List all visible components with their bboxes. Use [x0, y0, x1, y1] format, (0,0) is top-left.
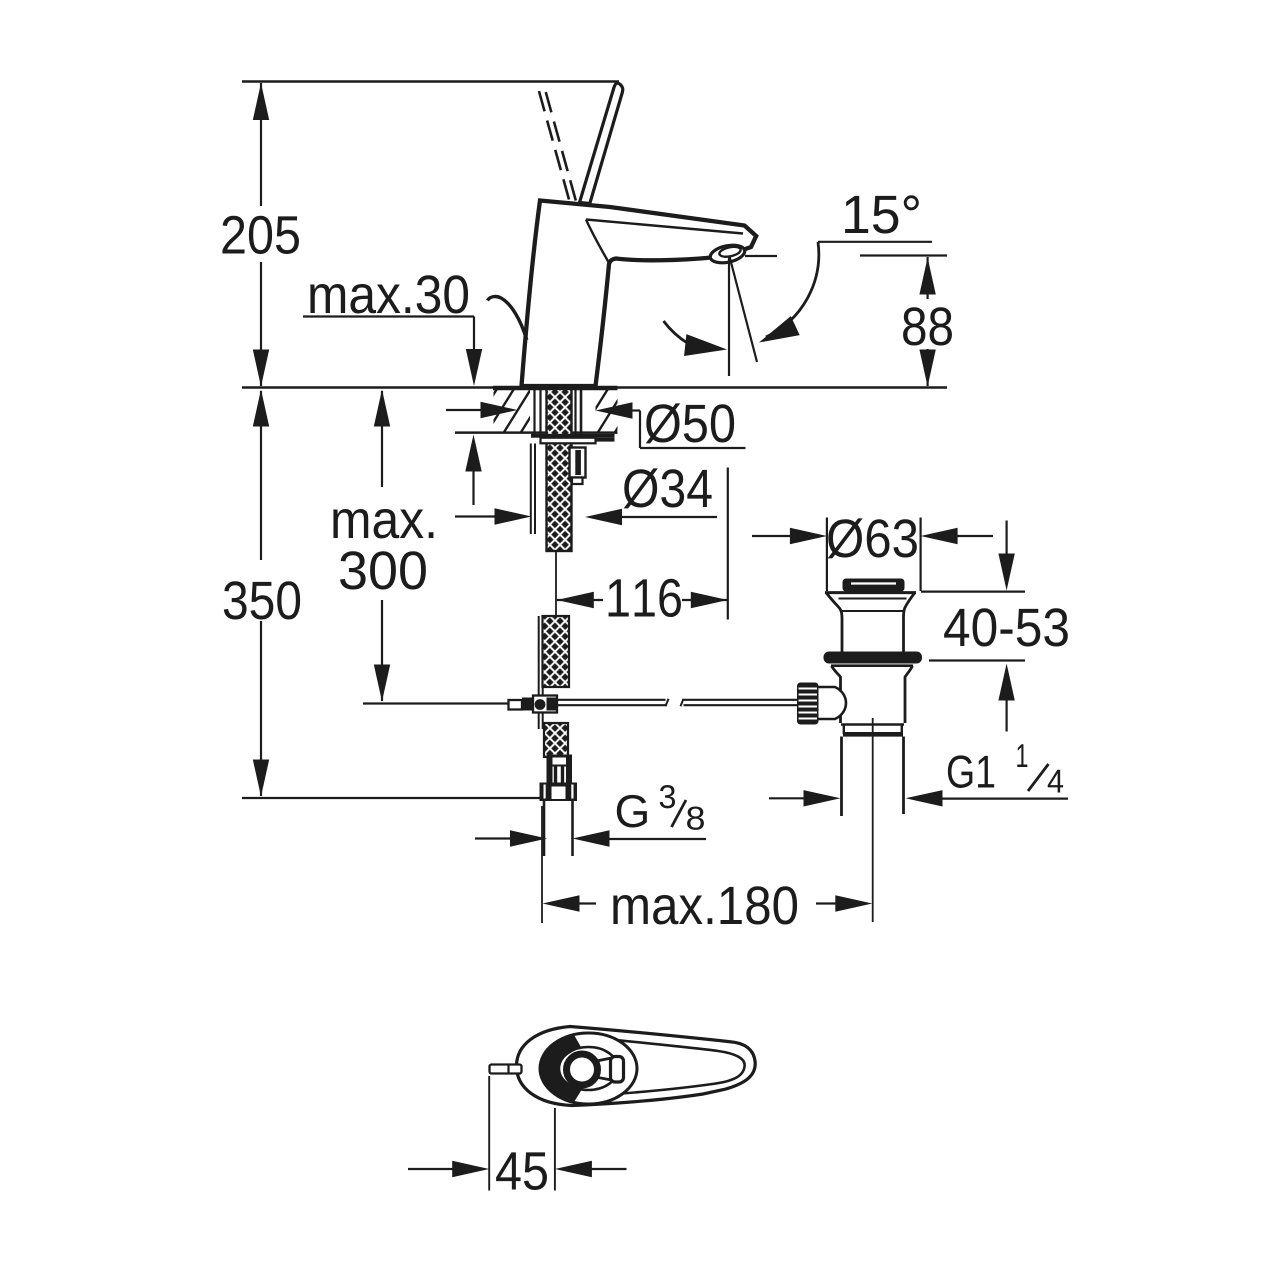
faucet front crease line	[586, 220, 609, 264]
dim 4053 arrow up	[998, 664, 1014, 701]
faucet centerline below shank	[555, 552, 557, 620]
horizontal pull rod left segment	[557, 699, 666, 701]
dim O34 left line	[455, 515, 497, 517]
dim 116 arrow right	[691, 592, 728, 608]
dim max300 line upper	[381, 391, 383, 487]
aerator outer ellipse	[709, 242, 747, 265]
waste centerline	[872, 718, 874, 922]
dim O50 left line	[446, 409, 482, 411]
fraction slash G114	[1028, 764, 1049, 791]
counter bottom line	[455, 431, 618, 434]
dim 350 line upper	[260, 391, 262, 560]
label G of G38	[617, 795, 647, 828]
waste O-ring seal	[824, 652, 923, 664]
dim O34 arrow right	[495, 508, 532, 524]
label 300	[340, 551, 426, 589]
dim 45 right line	[591, 1168, 627, 1170]
hose connection pipe	[543, 800, 546, 856]
label O34	[624, 468, 712, 508]
rod clamp screw dot	[535, 699, 546, 710]
water stream 15 degree line	[730, 257, 758, 363]
label 3 superscript	[660, 785, 675, 808]
rod clamp left sleeve	[509, 700, 523, 710]
dim 15 leader line	[818, 241, 932, 243]
lock washer right step	[596, 438, 615, 442]
dim G114 left line	[769, 797, 806, 799]
label 40-53	[944, 608, 1068, 646]
dim 4053 line upper	[1005, 521, 1007, 557]
dim G114 arrow left	[906, 790, 943, 806]
dim 4053 line lower	[1005, 698, 1007, 732]
dim 88 top reference line	[860, 254, 947, 256]
dim 205 arrow down	[253, 350, 269, 387]
tube wall lines below counter	[530, 444, 532, 535]
counter top line	[242, 386, 947, 389]
dim O63 extension line left	[826, 518, 828, 592]
label O63	[828, 518, 917, 558]
waste flange underside line	[831, 664, 913, 667]
hose ferrule	[547, 755, 573, 784]
dim 205 extension line upper segment	[260, 83, 262, 206]
lock nut	[541, 438, 596, 444]
dim G38 arrow left	[573, 830, 610, 846]
handle stub end cap	[611, 1057, 624, 1083]
dim O63 arrow right	[790, 528, 827, 544]
waste funnel shading line 1	[839, 598, 907, 600]
hose lower braided segment	[544, 723, 568, 757]
lever dashed alternate position line 1	[537, 84, 569, 200]
handle stub upper line	[597, 1058, 612, 1061]
dim 45 extension line left	[488, 1076, 490, 1191]
dim 45 extension line right	[554, 1108, 556, 1191]
dim 205 top reference line (lever max height)	[242, 80, 619, 83]
dim max.30 leader vertical	[473, 317, 475, 353]
dim 4053 arrow down	[998, 554, 1014, 591]
label max.180	[613, 886, 797, 924]
label G1 of G114	[948, 755, 994, 788]
dim 116 extension line right	[727, 468, 729, 620]
label 45	[496, 1152, 547, 1190]
dim 4053 lower reference line	[929, 659, 1025, 661]
dim O34 right line	[620, 516, 717, 518]
dim 45 arrow left	[555, 1161, 592, 1177]
waste body left edge	[832, 666, 841, 723]
dim 88 line upper	[926, 257, 928, 299]
label 8 subscript	[687, 806, 704, 829]
label 116	[609, 579, 681, 617]
waste funnel right edge	[904, 593, 915, 652]
dim G38 arrow right	[510, 830, 547, 846]
label 4 subscript	[1048, 770, 1063, 793]
lever solid position	[580, 83, 623, 203]
dim 116 arrow left	[557, 592, 594, 608]
dim O63 arrow left	[921, 528, 958, 544]
dim 4053 upper reference line	[921, 590, 1025, 592]
dim O63 right line	[956, 535, 993, 537]
dim max.30 arrow up at counter bottom	[465, 435, 481, 472]
handle top view outline	[517, 1027, 756, 1106]
dim max300 arrow down	[374, 665, 390, 702]
pull rod guide housing	[570, 448, 586, 478]
label max.30	[310, 275, 468, 313]
label 350	[224, 581, 300, 619]
waste plug cap	[843, 579, 905, 592]
aerator inner ellipse	[719, 245, 742, 258]
dim O34 arrow left	[585, 509, 622, 525]
label 1 superscript	[1017, 744, 1027, 767]
fraction slash G38	[672, 800, 687, 827]
handle cap outer circle	[540, 1033, 637, 1104]
dim 88 arrow up	[919, 258, 935, 295]
faucet body outline	[522, 201, 757, 387]
waste tailpipe left wall	[840, 737, 843, 817]
dim G114 right line	[940, 797, 1068, 799]
label 15 degrees	[845, 195, 919, 233]
label 205	[222, 216, 299, 254]
dim O50 arrow right	[481, 402, 518, 418]
handle set screw	[490, 1065, 522, 1074]
shank tube wall lines in hole	[533, 389, 535, 434]
dim G114 arrow right	[804, 790, 841, 806]
lock washer plate	[531, 434, 615, 438]
waste tailpipe right wall	[902, 737, 905, 815]
faucet pop-up rod knob	[488, 297, 527, 340]
dim 45 left line	[408, 1168, 453, 1170]
dim max300 arrow up	[374, 390, 390, 427]
dim 205 arrow up	[253, 83, 269, 120]
waste funnel left edge	[827, 593, 843, 652]
counter hatching right of hole	[578, 384, 645, 437]
dim max.30 arrow down at counter top	[466, 349, 482, 386]
rod clamp left block	[522, 698, 533, 711]
handle cap shaded ring	[542, 1036, 581, 1100]
label 88	[903, 307, 952, 345]
dim 350 arrow down	[253, 760, 269, 797]
rod clamp body	[533, 696, 557, 713]
counter top thick section edge	[493, 386, 618, 391]
dim max300 line lower	[381, 600, 383, 701]
hose end nut	[540, 783, 578, 802]
dim max300 bottom reference line	[363, 702, 509, 704]
rotation arc right	[766, 242, 819, 337]
dim O50 leader	[630, 409, 641, 411]
faucet inner top edge line	[586, 220, 743, 234]
waste knurled adjuster knob	[797, 683, 819, 725]
spout outlet reference line	[745, 255, 777, 257]
handle stub lower line	[598, 1078, 612, 1081]
dim max180 left extension line	[541, 806, 543, 923]
dim G38 right line	[608, 838, 706, 840]
dim 350 arrow up	[253, 390, 269, 427]
water stream vertical line	[728, 257, 730, 377]
dim O63 left line	[752, 535, 790, 537]
waste flange top line	[825, 591, 916, 594]
lever dashed alternate position line 2	[544, 85, 576, 201]
threaded shank braided rod	[547, 389, 572, 551]
dim 205 extension line lower segment	[260, 262, 262, 386]
rotation arc left	[664, 321, 689, 344]
hose upper braided segment	[543, 616, 570, 687]
waste body coupling thick line	[843, 732, 903, 737]
handle cap inner circle	[559, 1047, 618, 1090]
label max. (of max.300)	[333, 509, 433, 539]
dim O63 extension line right	[919, 518, 921, 592]
handle hub ring	[567, 1054, 598, 1085]
dim 350 bottom reference line	[242, 797, 540, 799]
rod clamp right block	[547, 698, 558, 711]
waste body coupling line	[841, 723, 904, 725]
label O50	[646, 403, 734, 443]
dim max180 arrow left	[543, 895, 580, 911]
dim 88 arrow down	[919, 350, 935, 387]
dim 88 line lower	[926, 349, 928, 386]
waste body right edge	[905, 666, 913, 723]
dim G38 left line	[475, 837, 511, 839]
dim 45 arrow right	[452, 1161, 489, 1177]
counter hatching left of hole	[467, 384, 551, 437]
handle top view inner edge line	[591, 1038, 745, 1095]
dim max180 arrow right	[835, 895, 872, 911]
waste funnel shading line 2	[842, 610, 904, 612]
dim O50 arrow left	[596, 402, 633, 418]
pop-up vertical rod	[538, 616, 540, 729]
waste knob stem	[819, 687, 847, 719]
dim max.30 leader underline	[303, 315, 474, 317]
dim 350 line lower	[260, 621, 262, 796]
horizontal pull rod right segment	[684, 699, 798, 701]
